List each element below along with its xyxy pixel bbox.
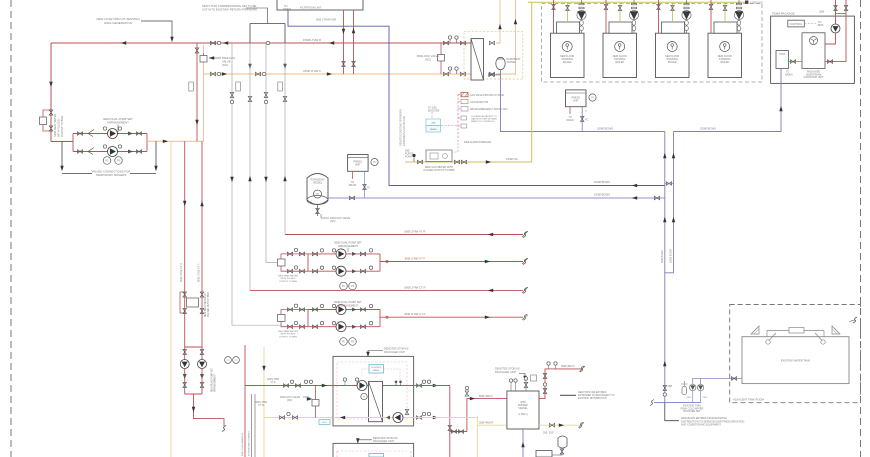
arrow right on CT flow xyxy=(485,316,490,319)
valve on red header before HX xyxy=(443,41,448,45)
label: NEW LTHW CIRCUIT SERVING HWG GENERATION xyxy=(96,17,140,25)
svg-text:ADJACENT TANK ROOM: ADJACENT TANK ROOM xyxy=(733,398,765,402)
svg-text:WITH PULSED: WITH PULSED xyxy=(57,119,61,137)
valves on B inlet stubs xyxy=(287,308,292,312)
arrow right on gas line xyxy=(486,160,491,163)
wire: grey riser x=250 xyxy=(249,43,251,290)
branch B top xyxy=(308,309,380,311)
gauge on red header xyxy=(266,41,269,44)
svg-text:TO GAS: TO GAS xyxy=(428,107,437,110)
svg-text:GAS: GAS xyxy=(431,122,436,125)
label: EXISTING TWIN PEAK COLD WATER BOOSTER SET xyxy=(681,405,704,414)
gas proving panel boxes (cyan) xyxy=(426,119,441,126)
valve on vessel line xyxy=(349,196,354,200)
wire: CT return line xyxy=(250,289,523,291)
boiler B3 red drop xyxy=(658,0,660,33)
boiler B1 xyxy=(551,22,585,78)
sensor dots on red xyxy=(395,381,398,384)
label: 25 EXP xyxy=(543,433,554,435)
valve cluster on orange header xyxy=(255,72,260,76)
wire: yellow riser x=171 xyxy=(170,141,172,457)
control panel 2 (cyan, cropped) xyxy=(369,454,384,457)
boiler B3 xyxy=(656,22,690,78)
PI gauge circle xyxy=(589,94,596,101)
svg-text:VT R: VT R xyxy=(258,404,264,407)
wire: olive gas header xyxy=(528,1,746,3)
arrow leader down onto red header xyxy=(170,37,173,42)
svg-text:TANK: TANK xyxy=(779,53,786,56)
wire: red through stokvis 1 xyxy=(333,385,414,387)
arrow down riser 250 xyxy=(248,64,251,69)
leader padlock stokvis xyxy=(303,397,311,399)
svg-text:20Ø LTHW F&R: 20Ø LTHW F&R xyxy=(316,18,336,22)
rotated note text column xyxy=(400,109,406,146)
arrows on yellow riser xyxy=(262,366,265,371)
svg-text:150Ø BCWS: 150Ø BCWS xyxy=(597,127,613,131)
gauges on HWS F out xyxy=(547,362,550,365)
svg-text:FIRE ALARM INTERFACE: FIRE ALARM INTERFACE xyxy=(464,141,492,144)
black leader HWS note xyxy=(560,394,576,396)
padlock valve NO box xyxy=(200,56,207,63)
valves on CT bypass xyxy=(183,292,187,297)
booster pump 1 xyxy=(690,384,696,390)
svg-text:(NO): (NO) xyxy=(330,220,336,223)
svg-text:FC: FC xyxy=(585,119,588,122)
svg-text:20Ø: 20Ø xyxy=(819,11,824,14)
boiler B2 red drop xyxy=(605,0,607,33)
PC/PS circles CT xyxy=(225,357,232,364)
tiny labels 25 dia xyxy=(687,397,707,399)
arrow left on y=185.5 line xyxy=(632,184,637,187)
svg-text:50Ø BCWS: 50Ø BCWS xyxy=(661,250,664,263)
valve between tank and filtration unit xyxy=(790,60,795,64)
svg-text:80Ø LTHW CT R: 80Ø LTHW CT R xyxy=(180,263,183,282)
valves on link y=431.5 xyxy=(451,430,456,434)
gas meter box xyxy=(426,150,452,162)
arrow up cold feed xyxy=(521,442,524,447)
break on HWS R xyxy=(579,422,583,428)
padlock valve NC box at HX xyxy=(438,55,445,62)
svg-text:GAS DETECTOR: GAS DETECTOR xyxy=(470,101,488,104)
wire: tan riser x=515.5 xyxy=(496,0,516,74)
valves+pump on branch A bottom xyxy=(312,269,317,273)
svg-text:TEMPORARY BOILERS: TEMPORARY BOILERS xyxy=(96,173,127,177)
manifold B right xyxy=(379,310,381,327)
bypass vertical B xyxy=(281,310,308,327)
wire: blue to small vessel xyxy=(540,449,562,456)
arrow down on x=51 drop xyxy=(49,82,52,87)
boiler B2 gas drop xyxy=(619,2,621,22)
wire: VT flow line xyxy=(380,261,523,263)
svg-text:220Ø BCWS: 220Ø BCWS xyxy=(700,127,716,131)
overflow squiggle xyxy=(849,320,855,322)
label: EXPANSION VESSEL xyxy=(507,58,521,64)
PI gauge under pump xyxy=(361,393,367,399)
valve bottom right in box xyxy=(405,409,409,414)
valve on bypass top xyxy=(49,110,53,115)
valves/strainer/pump on bottom branch xyxy=(77,150,82,154)
label: NEW GAS METER WITH PULSED OUTPUT TO BMS xyxy=(423,166,454,172)
wire: dark risers x=251.5/255 xyxy=(251,394,253,457)
wire: booster discharge header xyxy=(693,378,742,384)
label: DENOTES STOKVIS PACKAGED UNIT xyxy=(384,347,409,354)
wire: red vertical drop at x=51 to pump set xyxy=(50,43,52,142)
control tag 4 xyxy=(458,117,461,119)
boiler B4 flue funnel xyxy=(734,0,743,33)
svg-text:NEW FLOOR: NEW FLOOR xyxy=(665,56,679,58)
label above panel xyxy=(428,107,440,113)
svg-text:ABOVE EMERGENCY KNOCK-OFF: ABOVE EMERGENCY KNOCK-OFF xyxy=(470,108,508,111)
svg-text:AND CONDITIONING EQUIPMENT: AND CONDITIONING EQUIPMENT xyxy=(681,424,721,427)
svg-text:PC: PC xyxy=(226,360,229,362)
dashed link to BMS xyxy=(804,23,816,25)
arrows on tan risers xyxy=(498,24,501,29)
vent circles on red xyxy=(343,378,346,381)
HX right top port valve xyxy=(489,41,494,45)
gas header end cap xyxy=(745,1,748,4)
svg-text:80Ø LTHW VT F: 80Ø LTHW VT F xyxy=(405,257,426,261)
svg-text:STANDING: STANDING xyxy=(561,58,573,61)
boiler B2 xyxy=(603,22,637,78)
manifold A left xyxy=(307,254,309,271)
press unit 2 drain leg xyxy=(352,171,354,179)
wire: red vertical x=197 (return riser) xyxy=(196,43,198,141)
svg-text:NEW HEAT METER: NEW HEAT METER xyxy=(278,330,298,333)
control panel box (cyan) xyxy=(369,365,384,373)
svg-text:PC: PC xyxy=(105,160,109,163)
svg-text:POINT: POINT xyxy=(405,155,413,158)
wire: yellow riser x=264 xyxy=(263,347,265,457)
PI gauge circle 2 xyxy=(371,158,378,165)
padlock valve NC box stokvis xyxy=(312,400,319,407)
arrow right on orange header at 225 xyxy=(222,72,227,75)
svg-text:BOILER: BOILER xyxy=(563,62,572,64)
svg-text:DRAIN: DRAIN xyxy=(785,73,793,76)
leader for pump set 1 label xyxy=(117,125,119,133)
valves on lower riser xyxy=(663,385,667,390)
valves on red into stokvis xyxy=(283,384,288,388)
wire: grey riser x=266 xyxy=(266,43,281,263)
note: NEW HWS F&R ENTRIES xyxy=(578,391,615,400)
float valve arm right xyxy=(815,333,822,341)
svg-text:FC: FC xyxy=(367,187,370,190)
wire: pump set 1 discharge (orange) xyxy=(147,140,204,142)
svg-text:80Ø LTHW CT R: 80Ø LTHW CT R xyxy=(404,285,425,289)
CT branch left xyxy=(184,347,186,394)
pump P-PSMA xyxy=(831,24,840,33)
wire: orange LTHW flow header (y=74) xyxy=(204,73,472,75)
svg-text:150Ø LTHW F: 150Ø LTHW F xyxy=(303,69,321,73)
hatched vent right xyxy=(832,326,840,334)
float valve arm left xyxy=(769,333,776,341)
boiler B1 red drop xyxy=(553,0,555,33)
boiler B4 xyxy=(708,22,742,78)
wire: pump branch bottom xyxy=(73,151,147,153)
press unit box xyxy=(566,90,587,107)
arrow down riser 343.5 xyxy=(342,29,345,34)
heat meter box xyxy=(40,117,47,125)
pump P1 xyxy=(108,129,118,139)
FC valve on cold feed leg xyxy=(580,116,584,121)
svg-text:PACKAGED UNIT: PACKAGED UNIT xyxy=(384,350,405,354)
svg-text:25Ø: 25Ø xyxy=(687,397,691,399)
TANK box xyxy=(776,51,789,69)
stokvis 1 inner dashed (pink) xyxy=(337,362,407,419)
svg-text:EXPANSION UNIT NO GAS: EXPANSION UNIT NO GAS xyxy=(403,116,406,146)
wire: red PSMA riser 1 xyxy=(835,0,837,24)
leader to padlock valve xyxy=(209,57,221,59)
label: PRESS UNIT 2 xyxy=(354,161,363,167)
wire: pump set 1 inlet stub xyxy=(51,141,73,143)
continuation squiggle CT xyxy=(222,426,226,432)
svg-text:EXISTING WATER TANK: EXISTING WATER TANK xyxy=(781,359,811,363)
svg-text:VT F: VT F xyxy=(270,381,276,384)
stokvis 2 inner dashed xyxy=(337,450,407,452)
heat exchanger HX2 xyxy=(369,381,383,421)
leader stokvis 2 label xyxy=(358,440,372,441)
boiler B4 gas drop xyxy=(724,2,726,22)
wire: red CT riser x=184.7 xyxy=(184,141,186,347)
label: PADLOCK VALVE (NO) xyxy=(222,56,235,67)
label: NEW DUAL PUMP SET ARRANGEMENT (A) xyxy=(334,241,362,248)
valves on red header x=212-219 xyxy=(210,41,215,45)
boiler B3 flue funnel xyxy=(682,0,691,33)
label: TO DRAIN (press 2) xyxy=(349,181,357,187)
pump P2 xyxy=(108,147,118,157)
valves/strainer/pump on top branch xyxy=(77,132,82,136)
svg-text:NEW FLOOR: NEW FLOOR xyxy=(718,56,732,58)
heat exchanger HX1 xyxy=(471,39,484,80)
rotated label: NEW HEAT METER WITH PULSED OUTPUT TO BMS xyxy=(53,114,64,137)
pump CT-2 xyxy=(198,360,207,369)
svg-text:LOCATED ADJACENT TO: LOCATED ADJACENT TO xyxy=(471,115,497,118)
arrow right on HWS F xyxy=(470,397,475,400)
wire: olive gas riser from meter up to header xyxy=(531,2,533,162)
arrow left on red header xyxy=(121,41,126,44)
wire: red PSMA riser 2 xyxy=(825,0,846,62)
heat meter box B xyxy=(278,315,286,322)
svg-text:STANDING: STANDING xyxy=(666,58,678,61)
svg-text:PANEL: PANEL xyxy=(373,369,381,372)
label: TO DRAIN (psma) xyxy=(785,71,793,77)
break on VT return xyxy=(523,232,527,238)
pump set 1 left manifold xyxy=(72,134,74,152)
check on yellow xyxy=(386,416,390,420)
hatched vent left xyxy=(751,326,759,334)
label: DENOTES STOKVIS PACKAGED UNIT (buffer) xyxy=(495,367,520,374)
label: 80 LTHW VT R (into unit) xyxy=(255,401,268,407)
arrow right on discharge xyxy=(163,140,168,143)
wire: BCWS vertical x=673.5 xyxy=(665,132,674,273)
manifold A right xyxy=(379,254,381,271)
magenta dashed riser (controls) xyxy=(457,94,459,143)
black leader to note xyxy=(665,403,679,421)
existing water tank xyxy=(742,337,849,384)
svg-text:220Ø BCWS: 220Ø BCWS xyxy=(670,248,673,263)
svg-text:PULSED OUTPUT TO BMS: PULSED OUTPUT TO BMS xyxy=(423,169,454,172)
CONTROL box xyxy=(788,20,805,27)
label: SHW BUFFER VESSEL (1,500 L) xyxy=(518,401,528,416)
branch B bottom xyxy=(308,326,380,328)
label: PADLOCK VALVE (NC) xyxy=(417,54,440,62)
packaged sidestream filtration unit box xyxy=(802,33,825,69)
leader stokvis label xyxy=(368,351,383,355)
wire: yellow into stokvis 1 xyxy=(264,417,333,419)
svg-text:(NC): (NC) xyxy=(287,399,292,402)
press unit box (buffer) xyxy=(536,451,552,457)
leader from commissioning label xyxy=(246,8,268,24)
svg-text:NEW HEAT METER W.: NEW HEAT METER W. xyxy=(204,293,207,317)
arrow right on orange header at 329 xyxy=(327,72,332,75)
svg-text:GAS VALVE PROVING SYSTEM: GAS VALVE PROVING SYSTEM xyxy=(470,94,504,97)
valves on yellow into stokvis xyxy=(279,416,284,420)
wire: red riser x=353.5 filtration connection xyxy=(353,10,355,74)
arrow up lower riser xyxy=(663,361,666,366)
boiler expansion vessel xyxy=(496,57,505,69)
PC/PS circles A xyxy=(340,282,348,290)
break on CT return xyxy=(523,287,527,293)
svg-text:VESSEL: VESSEL xyxy=(507,61,517,64)
control tag 1 (red hatch) xyxy=(458,94,461,96)
svg-text:50Ø HWS F: 50Ø HWS F xyxy=(561,364,575,368)
label: NEW LTHW COMMISSIONING SET TO BE CUT INTO EXISTING RETURN xyxy=(202,4,257,12)
label: PRESS UNIT xyxy=(571,97,580,103)
heat meter bypass loop (pump set 1) xyxy=(43,110,51,131)
svg-text:PULSED OUTPUT BMS: PULSED OUTPUT BMS xyxy=(208,292,210,317)
stokvis unit 1 box xyxy=(333,356,414,426)
bypass vertical A xyxy=(281,254,308,271)
arrow down on x=197 xyxy=(195,120,198,125)
svg-text:220Ø BCWS: 220Ø BCWS xyxy=(594,180,610,184)
pump stokvis 1 xyxy=(357,381,367,391)
arrow up riser 353.5 xyxy=(352,28,355,33)
wire: blue from boiler expansion vessel xyxy=(488,70,665,132)
svg-text:EXISTING DISTRIBUTION: EXISTING DISTRIBUTION xyxy=(578,397,607,400)
cross connection valves between risers xyxy=(666,182,671,186)
commissioning bracket xyxy=(250,23,285,25)
valves on PSMA risers xyxy=(834,5,838,10)
vents on x=466.9 xyxy=(465,386,468,389)
svg-text:GAS BOOSTER SET AND: GAS BOOSTER SET AND xyxy=(471,118,497,121)
check valve + discharge valve top branch xyxy=(128,132,133,136)
rotated labels on risers xyxy=(661,248,673,263)
leader for HWG label xyxy=(141,21,172,38)
wire: yellow HWS R from buffer xyxy=(539,424,580,426)
gauges near HX on red header xyxy=(448,36,451,39)
label: 25 PURGE POINT xyxy=(405,150,414,159)
press unit 2 cold feed leg xyxy=(364,171,366,198)
wire: red LTHW return header (main, y=43) xyxy=(51,42,471,44)
pump CT-1 xyxy=(180,360,189,369)
valves on yellow out of stokvis xyxy=(416,416,421,420)
svg-text:BOILER: BOILER xyxy=(720,62,729,64)
vessel bottom drain with padlock valve xyxy=(317,205,319,216)
svg-text:WITH PULSED: WITH PULSED xyxy=(281,334,296,336)
label: VALVED CONNECTIONS FOR TEMPORARY BOILERS xyxy=(92,170,131,178)
tank top pipework xyxy=(767,330,824,332)
arrow down riser 285 xyxy=(283,64,286,69)
branch A top xyxy=(308,253,380,255)
wire: blue from PSMA tank down xyxy=(674,68,782,131)
wire: VT return line xyxy=(285,234,523,236)
svg-text:WIRED TO CONTROLS: WIRED TO CONTROLS xyxy=(471,121,495,123)
wire: yellow through stokvis 1 xyxy=(333,417,414,419)
svg-text:CONTROL: CONTROL xyxy=(790,22,803,26)
svg-text:PS: PS xyxy=(351,286,355,288)
valve on riser x=449.8 xyxy=(448,425,452,430)
buffer vessel box xyxy=(507,391,539,429)
svg-text:PI: PI xyxy=(373,161,376,164)
valve on bypass bottom xyxy=(49,126,53,131)
heat meter box CT xyxy=(187,298,199,307)
tank top center fitting xyxy=(789,328,804,334)
PC/PS control circles xyxy=(103,157,111,165)
CT branch right xyxy=(201,347,203,394)
valves on A inlet stubs xyxy=(287,252,292,256)
svg-text:25Ø: 25Ø xyxy=(703,397,707,399)
svg-text:150Ø NG: 150Ø NG xyxy=(506,157,518,161)
junction dot VT flow xyxy=(386,260,388,262)
padlock bypass vertical x=203.5 (orange) xyxy=(203,45,205,141)
wire: BCWS to booster suction xyxy=(665,402,701,404)
valves+pump on branch A top xyxy=(312,252,317,256)
wire: tan riser x=500 to top headers (cropped) xyxy=(496,0,500,43)
svg-text:ARRANGEMENT: ARRANGEMENT xyxy=(338,244,359,248)
svg-text:50Ø HWS F: 50Ø HWS F xyxy=(479,394,493,398)
wire: yellow HWS R riser jog xyxy=(414,416,507,457)
svg-text:ISOL: ISOL xyxy=(322,422,328,424)
cyan tag on yellow line xyxy=(319,420,330,425)
svg-text:BOOSTER SET: BOOSTER SET xyxy=(683,410,701,413)
svg-text:PS: PS xyxy=(351,342,355,344)
control tag 5 xyxy=(458,125,461,127)
svg-text:PANEL: PANEL xyxy=(430,128,438,131)
label: NEW DUAL PUMP SET ARRANGEMENT xyxy=(103,117,133,125)
break on CT flow xyxy=(523,314,527,320)
svg-text:ARRANGEMENT: ARRANGEMENT xyxy=(107,121,129,125)
label: TO DRAIN / FILTRATION UNIT xyxy=(283,4,322,11)
svg-text:STANDING: STANDING xyxy=(614,58,626,61)
leader buffer label xyxy=(519,374,525,379)
label: EXPANSION VESSEL xyxy=(311,179,325,185)
svg-text:(1,500 L): (1,500 L) xyxy=(518,413,528,416)
press unit cold feed leg xyxy=(581,107,583,132)
svg-text:DRAIN: DRAIN xyxy=(283,7,291,11)
CT manifold bottom xyxy=(185,393,202,395)
svg-text:BMS: BMS xyxy=(818,24,824,27)
svg-text:BOILER: BOILER xyxy=(615,62,624,64)
arrow right into stokvis red xyxy=(322,384,327,387)
arrow right red out xyxy=(433,384,438,387)
dashed pink from panel to riser xyxy=(441,125,458,127)
temporary boiler connection left leg xyxy=(61,142,63,169)
HX1 diagonal xyxy=(471,39,484,80)
control tag 2 xyxy=(458,101,461,103)
valve near vessel xyxy=(560,449,564,454)
boiler B1 flue funnel xyxy=(577,0,586,33)
svg-text:50Ø HWS R: 50Ø HWS R xyxy=(479,421,493,425)
rotated label: NEW HEAT METER WITH PULSED OUTPUT TO BMS (CT) xyxy=(204,292,210,317)
stokvis unit 2 box (cropped) xyxy=(333,443,414,457)
svg-text:PI: PI xyxy=(591,97,594,100)
svg-text:150Ø GAS: 150Ø GAS xyxy=(750,1,763,5)
wire: red into stokvis 1 xyxy=(245,385,333,387)
svg-text:ARRANGEMENT: ARRANGEMENT xyxy=(214,374,217,392)
svg-text:80Ø LTHW CT F: 80Ø LTHW CT F xyxy=(405,312,426,316)
svg-text:OUTPUT TO BMS: OUTPUT TO BMS xyxy=(279,336,297,338)
arrow left on red header at 225 xyxy=(223,41,228,44)
wire: red riser x=245 xyxy=(244,345,246,457)
